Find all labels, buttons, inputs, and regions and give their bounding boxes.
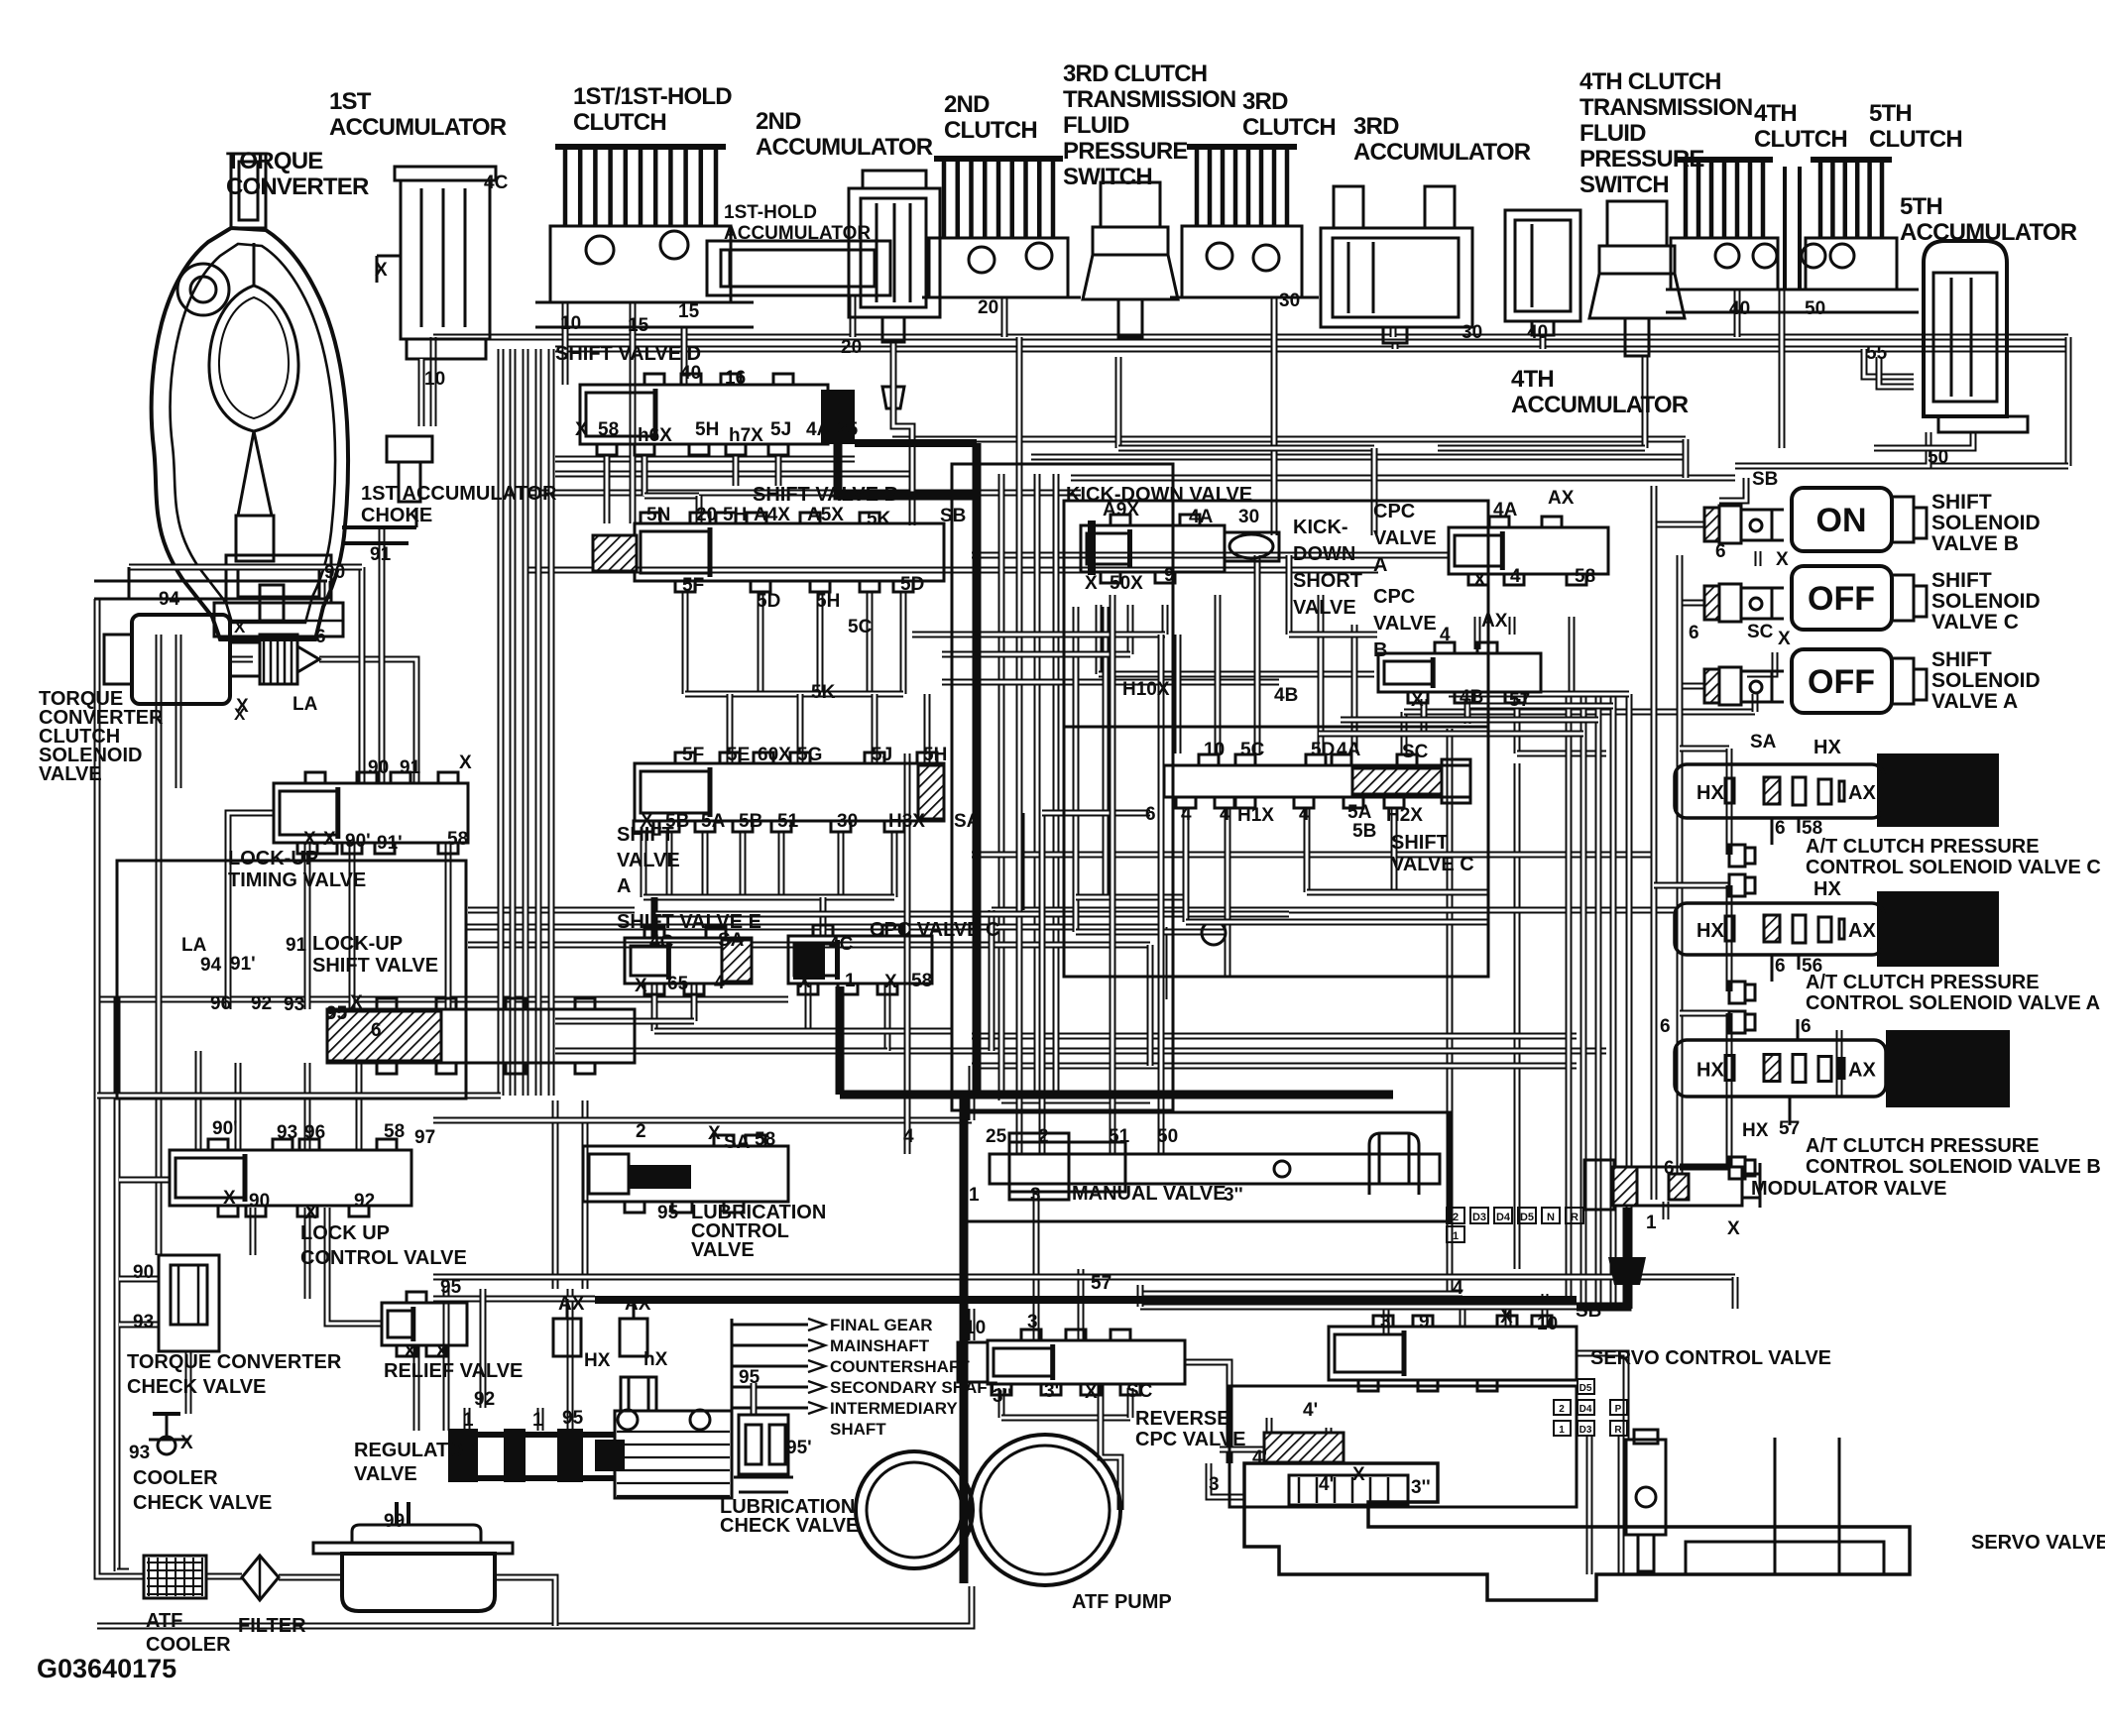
svg-text:58: 58 xyxy=(911,971,932,991)
svg-text:SB: SB xyxy=(1752,469,1778,490)
svg-text:91: 91 xyxy=(286,935,307,956)
svg-text:90: 90 xyxy=(324,562,345,583)
svg-text:HX: HX xyxy=(1696,920,1724,942)
svg-text:SHIFT: SHIFT xyxy=(1931,569,1992,592)
svg-text:CLUTCH: CLUTCH xyxy=(1242,114,1336,141)
svg-text:CPC VALVE C: CPC VALVE C xyxy=(870,919,1000,941)
svg-text:15: 15 xyxy=(678,301,700,322)
svg-text:20: 20 xyxy=(841,337,862,358)
svg-text:AX: AX xyxy=(1848,782,1876,804)
svg-text:10: 10 xyxy=(560,313,581,334)
svg-text:CLUTCH: CLUTCH xyxy=(573,109,666,136)
svg-text:5F: 5F xyxy=(682,745,704,765)
svg-text:60X: 60X xyxy=(758,745,791,765)
svg-text:2ND: 2ND xyxy=(756,108,801,135)
svg-text:2: 2 xyxy=(636,1121,646,1142)
svg-text:4: 4 xyxy=(1220,804,1230,825)
svg-text:CONVERTER: CONVERTER xyxy=(226,174,369,200)
svg-text:RELIEF VALVE: RELIEF VALVE xyxy=(384,1360,523,1382)
svg-text:PRESSURE: PRESSURE xyxy=(1579,146,1704,173)
svg-text:20: 20 xyxy=(978,297,998,318)
svg-text:COOLER: COOLER xyxy=(146,1634,231,1656)
svg-text:6: 6 xyxy=(1689,623,1699,643)
svg-text:95: 95 xyxy=(562,1408,584,1429)
svg-text:h6X: h6X xyxy=(638,425,672,446)
svg-text:MAINSHAFT: MAINSHAFT xyxy=(830,1336,930,1355)
svg-text:SA: SA xyxy=(718,930,745,951)
svg-text:P: P xyxy=(1615,1404,1622,1415)
svg-text:2: 2 xyxy=(1559,1404,1565,1415)
svg-text:SB: SB xyxy=(1576,1301,1601,1322)
svg-text:95: 95 xyxy=(440,1277,462,1298)
svg-text:ACCUMULATOR: ACCUMULATOR xyxy=(724,223,871,244)
svg-text:5H: 5H xyxy=(923,745,947,765)
svg-text:SHIFT VALVE: SHIFT VALVE xyxy=(312,955,438,977)
svg-text:50: 50 xyxy=(1928,447,1948,468)
svg-text:TORQUE: TORQUE xyxy=(226,148,323,174)
svg-text:A/T CLUTCH PRESSURE: A/T CLUTCH PRESSURE xyxy=(1806,1135,2040,1157)
svg-text:SA: SA xyxy=(954,811,981,832)
svg-text:4: 4 xyxy=(1440,625,1451,645)
svg-text:91: 91 xyxy=(370,544,392,565)
svg-text:3: 3 xyxy=(1030,1185,1041,1206)
svg-text:KICK-: KICK- xyxy=(1293,517,1348,538)
svg-text:R: R xyxy=(1571,1212,1579,1223)
svg-text:LOCK-UP: LOCK-UP xyxy=(228,848,318,869)
svg-text:1: 1 xyxy=(532,1410,543,1431)
svg-text:A9X: A9X xyxy=(1103,500,1139,521)
svg-text:30: 30 xyxy=(837,811,858,832)
svg-text:CONTROL SOLENOID VALVE A: CONTROL SOLENOID VALVE A xyxy=(1806,992,2100,1014)
svg-text:REGULATOR: REGULATOR xyxy=(354,1440,478,1461)
svg-text:AX: AX xyxy=(1848,920,1876,942)
svg-text:AX: AX xyxy=(625,1294,651,1315)
svg-text:93: 93 xyxy=(133,1312,154,1332)
svg-text:5D: 5D xyxy=(900,574,924,595)
svg-text:SHIFT VALVE D: SHIFT VALVE D xyxy=(555,343,701,365)
svg-text:10: 10 xyxy=(1204,740,1225,760)
svg-text:HX: HX xyxy=(584,1350,611,1371)
svg-text:D5: D5 xyxy=(1520,1212,1534,1223)
svg-text:56: 56 xyxy=(1802,956,1822,977)
svg-text:4': 4' xyxy=(1319,1474,1334,1495)
svg-text:FINAL GEAR: FINAL GEAR xyxy=(830,1316,933,1334)
svg-text:5J: 5J xyxy=(872,745,892,765)
svg-text:50X: 50X xyxy=(1110,573,1143,594)
svg-text:DOWN: DOWN xyxy=(1293,543,1355,565)
svg-text:1: 1 xyxy=(1453,1230,1459,1242)
svg-text:VALVE: VALVE xyxy=(1373,613,1437,635)
svg-text:VALVE: VALVE xyxy=(1293,597,1356,619)
svg-text:30: 30 xyxy=(1238,507,1259,527)
svg-text:3RD: 3RD xyxy=(1353,113,1399,140)
svg-text:CPC: CPC xyxy=(1373,501,1415,522)
svg-text:SC: SC xyxy=(1747,622,1774,642)
svg-text:3: 3 xyxy=(1027,1312,1038,1332)
svg-text:58: 58 xyxy=(755,1129,775,1150)
svg-text:CONTROL VALVE: CONTROL VALVE xyxy=(300,1247,467,1269)
svg-text:X: X xyxy=(1352,1464,1365,1485)
svg-text:D4: D4 xyxy=(1496,1212,1511,1223)
svg-text:X: X xyxy=(234,618,246,637)
svg-text:1ST: 1ST xyxy=(329,88,372,115)
svg-text:X: X xyxy=(1500,1307,1513,1328)
svg-text:X: X xyxy=(635,976,647,996)
svg-text:LOCK UP: LOCK UP xyxy=(300,1222,390,1244)
svg-text:TORQUE CONVERTER: TORQUE CONVERTER xyxy=(127,1351,342,1373)
svg-text:6: 6 xyxy=(1664,1158,1675,1179)
svg-text:58: 58 xyxy=(598,419,619,440)
svg-text:4TH: 4TH xyxy=(1511,366,1554,393)
svg-text:50: 50 xyxy=(1157,1126,1178,1147)
svg-text:58: 58 xyxy=(1575,566,1595,587)
svg-text:VALVE: VALVE xyxy=(617,850,680,871)
svg-text:20: 20 xyxy=(696,505,717,525)
svg-text:X: X xyxy=(1776,549,1789,570)
svg-text:VALVE B: VALVE B xyxy=(1931,532,2019,555)
svg-text:SHIFT: SHIFT xyxy=(1391,832,1449,854)
svg-text:X: X xyxy=(304,1203,317,1223)
svg-text:LOCK-UP: LOCK-UP xyxy=(312,933,403,955)
svg-text:H1X: H1X xyxy=(1237,805,1274,826)
svg-text:5TH: 5TH xyxy=(1869,100,1912,127)
svg-text:5C: 5C xyxy=(1240,740,1265,760)
svg-text:X: X xyxy=(435,1341,448,1362)
svg-text:5B: 5B xyxy=(665,811,689,832)
svg-text:94: 94 xyxy=(200,955,222,976)
svg-text:CHOKE: CHOKE xyxy=(361,505,432,526)
svg-text:HX: HX xyxy=(1696,1060,1724,1082)
svg-text:3': 3' xyxy=(1044,1381,1059,1402)
svg-text:COOLER: COOLER xyxy=(133,1467,218,1489)
svg-text:50: 50 xyxy=(1805,298,1825,319)
svg-text:99: 99 xyxy=(384,1511,405,1532)
svg-text:5B: 5B xyxy=(739,811,762,832)
svg-text:SECONDARY SHAFT: SECONDARY SHAFT xyxy=(830,1378,998,1397)
svg-text:CHECK VALVE: CHECK VALVE xyxy=(720,1515,859,1537)
svg-text:65: 65 xyxy=(667,974,689,994)
svg-text:OFF: OFF xyxy=(1808,580,1875,618)
svg-text:CONTROL SOLENOID VALVE B: CONTROL SOLENOID VALVE B xyxy=(1806,1156,2101,1178)
svg-text:4TH: 4TH xyxy=(1754,100,1797,127)
svg-text:92: 92 xyxy=(251,993,272,1014)
svg-text:D5: D5 xyxy=(1579,1383,1592,1394)
svg-text:95: 95 xyxy=(657,1203,679,1223)
svg-text:VALVE: VALVE xyxy=(39,763,102,785)
svg-text:2: 2 xyxy=(1038,1126,1049,1147)
svg-text:6: 6 xyxy=(1801,1016,1812,1037)
svg-text:5D: 5D xyxy=(1311,740,1335,760)
svg-text:5D: 5D xyxy=(757,591,780,612)
svg-text:X: X xyxy=(223,1188,236,1209)
svg-text:B: B xyxy=(1373,639,1387,661)
svg-text:SC: SC xyxy=(1402,742,1429,762)
svg-text:AX: AX xyxy=(1848,1060,1876,1082)
svg-text:X: X xyxy=(303,829,316,850)
svg-text:SHORT: SHORT xyxy=(1293,570,1362,592)
svg-text:X: X xyxy=(1473,570,1486,591)
svg-text:A/T CLUTCH PRESSURE: A/T CLUTCH PRESSURE xyxy=(1806,836,2040,858)
svg-text:90: 90 xyxy=(368,757,389,778)
svg-text:6: 6 xyxy=(1775,956,1786,977)
svg-text:2ND: 2ND xyxy=(944,91,990,118)
svg-text:MODULATOR VALVE: MODULATOR VALVE xyxy=(1751,1178,1946,1200)
svg-text:hX: hX xyxy=(643,1349,668,1370)
svg-text:4: 4 xyxy=(1181,804,1192,825)
svg-text:OFF: OFF xyxy=(1808,663,1875,701)
svg-text:90: 90 xyxy=(249,1191,270,1212)
svg-text:4TH CLUTCH: 4TH CLUTCH xyxy=(1579,68,1721,95)
svg-text:LA: LA xyxy=(292,694,318,715)
svg-text:91': 91' xyxy=(377,833,403,854)
svg-text:95: 95 xyxy=(739,1367,760,1388)
svg-text:93: 93 xyxy=(277,1122,297,1143)
svg-text:SC: SC xyxy=(1126,1381,1153,1402)
svg-text:ACCUMULATOR: ACCUMULATOR xyxy=(1900,219,2077,246)
svg-text:CPC: CPC xyxy=(1373,586,1415,608)
svg-text:5H: 5H xyxy=(695,419,719,440)
svg-text:4C: 4C xyxy=(484,173,509,193)
svg-text:ACCUMULATOR: ACCUMULATOR xyxy=(329,114,507,141)
svg-text:COUNTERSHAFT: COUNTERSHAFT xyxy=(830,1357,970,1376)
svg-text:H3X: H3X xyxy=(888,811,925,832)
svg-text:6: 6 xyxy=(1145,804,1156,825)
svg-text:ATF PUMP: ATF PUMP xyxy=(1072,1591,1172,1613)
svg-text:9: 9 xyxy=(1164,565,1175,586)
svg-text:CLUTCH: CLUTCH xyxy=(1754,126,1847,153)
svg-text:SA: SA xyxy=(724,1132,751,1153)
svg-text:1: 1 xyxy=(969,1185,980,1206)
svg-text:TRANSMISSION: TRANSMISSION xyxy=(1063,86,1235,113)
svg-text:4: 4 xyxy=(1510,566,1521,587)
svg-text:25: 25 xyxy=(837,419,859,440)
svg-text:SB: SB xyxy=(940,506,966,526)
svg-text:G03640175: G03640175 xyxy=(37,1654,176,1683)
svg-text:92: 92 xyxy=(354,1191,375,1212)
svg-text:10: 10 xyxy=(424,369,445,390)
svg-text:CHECK VALVE: CHECK VALVE xyxy=(133,1492,272,1514)
svg-text:SHIFT: SHIFT xyxy=(1931,648,1992,671)
svg-text:VALVE A: VALVE A xyxy=(1931,690,2018,713)
svg-text:X: X xyxy=(180,1433,193,1453)
svg-text:97: 97 xyxy=(414,1127,435,1148)
svg-text:96: 96 xyxy=(210,993,231,1014)
svg-text:9: 9 xyxy=(1419,1312,1430,1332)
svg-text:R: R xyxy=(1614,1425,1622,1436)
svg-text:SA: SA xyxy=(1750,732,1777,752)
svg-text:CPC VALVE: CPC VALVE xyxy=(1135,1429,1246,1450)
svg-text:1ST ACCUMULATOR: 1ST ACCUMULATOR xyxy=(361,483,557,505)
svg-text:HX: HX xyxy=(1696,782,1724,804)
svg-text:SHIFT: SHIFT xyxy=(1931,491,1992,514)
svg-text:90: 90 xyxy=(133,1262,154,1283)
svg-text:95': 95' xyxy=(786,1438,812,1458)
svg-text:3'': 3'' xyxy=(1224,1185,1243,1206)
svg-text:4': 4' xyxy=(1303,1400,1318,1421)
svg-text:A4X: A4X xyxy=(754,505,790,525)
svg-text:4: 4 xyxy=(1299,804,1310,825)
svg-text:MANUAL VALVE: MANUAL VALVE xyxy=(1072,1183,1227,1205)
svg-text:1: 1 xyxy=(1559,1425,1565,1436)
svg-text:SHAFT: SHAFT xyxy=(830,1420,886,1439)
svg-text:X: X xyxy=(375,260,388,281)
svg-text:H10X: H10X xyxy=(1122,679,1170,700)
svg-text:5N: 5N xyxy=(646,505,670,525)
svg-text:5C: 5C xyxy=(848,617,873,637)
svg-text:51: 51 xyxy=(1109,1126,1130,1147)
svg-text:HX: HX xyxy=(1742,1120,1769,1141)
svg-text:VALVE: VALVE xyxy=(354,1463,417,1485)
svg-text:30: 30 xyxy=(1279,290,1300,311)
svg-text:4A: 4A xyxy=(806,419,831,440)
svg-text:CLUTCH: CLUTCH xyxy=(1869,126,1962,153)
svg-text:30: 30 xyxy=(1462,322,1482,343)
svg-text:57: 57 xyxy=(1779,1118,1800,1139)
svg-text:VALVE C: VALVE C xyxy=(1391,854,1474,875)
svg-text:A5X: A5X xyxy=(807,505,844,525)
svg-text:X: X xyxy=(459,752,472,773)
svg-text:SHIFT VALVE B: SHIFT VALVE B xyxy=(753,484,898,506)
svg-text:FLUID: FLUID xyxy=(1579,120,1646,147)
svg-text:PRESSURE: PRESSURE xyxy=(1063,138,1188,165)
svg-text:4: 4 xyxy=(714,973,725,993)
svg-text:1: 1 xyxy=(845,971,856,991)
svg-text:X: X xyxy=(1778,629,1791,649)
svg-text:3: 3 xyxy=(1209,1474,1220,1495)
svg-text:AX: AX xyxy=(1481,611,1508,632)
svg-text:SOLENOID: SOLENOID xyxy=(1931,669,2041,692)
svg-text:91': 91' xyxy=(230,954,256,975)
svg-text:4: 4 xyxy=(1453,1278,1463,1299)
svg-text:4C: 4C xyxy=(829,934,854,955)
svg-text:HX: HX xyxy=(1813,878,1841,900)
svg-text:5F: 5F xyxy=(682,575,704,596)
svg-text:93: 93 xyxy=(129,1443,150,1463)
svg-text:ATF: ATF xyxy=(146,1610,182,1632)
svg-text:15: 15 xyxy=(628,315,649,336)
svg-text:X: X xyxy=(350,992,363,1013)
svg-text:5H: 5H xyxy=(723,505,747,525)
svg-text:A: A xyxy=(1373,554,1387,576)
svg-text:H2X: H2X xyxy=(1386,805,1423,826)
svg-text:57: 57 xyxy=(1091,1273,1111,1294)
svg-text:58: 58 xyxy=(447,829,468,850)
svg-text:51: 51 xyxy=(777,811,799,832)
svg-text:4': 4' xyxy=(1252,1447,1267,1468)
svg-text:D3: D3 xyxy=(1472,1212,1486,1223)
svg-text:1: 1 xyxy=(463,1410,474,1431)
svg-text:1ST-HOLD: 1ST-HOLD xyxy=(724,202,817,223)
svg-text:INTERMEDIARY: INTERMEDIARY xyxy=(830,1399,958,1418)
svg-text:5A: 5A xyxy=(1347,802,1372,823)
svg-text:X: X xyxy=(798,972,811,992)
svg-text:90': 90' xyxy=(345,831,371,852)
svg-text:1ST/1ST-HOLD: 1ST/1ST-HOLD xyxy=(573,83,732,110)
svg-text:HX: HX xyxy=(1813,737,1841,758)
svg-text:TRANSMISSION: TRANSMISSION xyxy=(1579,94,1752,121)
svg-text:10: 10 xyxy=(1537,1314,1558,1334)
svg-text:5TH: 5TH xyxy=(1900,193,1942,220)
svg-text:5G: 5G xyxy=(797,745,822,765)
svg-text:91: 91 xyxy=(400,757,421,778)
svg-text:5E: 5E xyxy=(727,745,750,765)
svg-text:ACCUMULATOR: ACCUMULATOR xyxy=(756,134,933,161)
svg-text:4: 4 xyxy=(903,1126,914,1147)
svg-text:SOLENOID: SOLENOID xyxy=(1931,512,2041,534)
svg-text:SERVO VALVE: SERVO VALVE xyxy=(1971,1532,2105,1554)
svg-text:X: X xyxy=(323,829,336,850)
svg-text:SWITCH: SWITCH xyxy=(1579,172,1669,198)
svg-text:4C: 4C xyxy=(649,932,674,953)
svg-text:X: X xyxy=(1727,1218,1740,1239)
svg-text:40: 40 xyxy=(1729,298,1750,319)
svg-text:FLUID: FLUID xyxy=(1063,112,1129,139)
svg-text:VALVE C: VALVE C xyxy=(1931,611,2019,634)
svg-text:3RD CLUTCH: 3RD CLUTCH xyxy=(1063,60,1207,87)
svg-text:X: X xyxy=(1085,1382,1098,1403)
svg-text:94: 94 xyxy=(159,589,180,610)
svg-text:CHECK VALVE: CHECK VALVE xyxy=(127,1376,266,1398)
svg-text:5A: 5A xyxy=(701,811,726,832)
svg-text:A/T CLUTCH PRESSURE: A/T CLUTCH PRESSURE xyxy=(1806,972,2040,993)
svg-text:90': 90' xyxy=(212,1118,238,1139)
svg-text:CLUTCH: CLUTCH xyxy=(944,117,1037,144)
svg-text:5H: 5H xyxy=(816,591,840,612)
svg-text:ON: ON xyxy=(1816,502,1867,539)
svg-text:96: 96 xyxy=(304,1122,325,1143)
svg-text:10: 10 xyxy=(965,1318,986,1338)
svg-text:A: A xyxy=(617,875,631,897)
svg-text:3RD: 3RD xyxy=(1242,88,1288,115)
svg-text:25: 25 xyxy=(986,1126,1007,1147)
svg-text:SOLENOID: SOLENOID xyxy=(1931,590,2041,613)
svg-text:3'': 3'' xyxy=(993,1386,1012,1407)
svg-text:40: 40 xyxy=(1527,322,1548,343)
svg-text:FILTER: FILTER xyxy=(238,1615,306,1637)
svg-text:X: X xyxy=(404,1341,416,1362)
svg-text:58: 58 xyxy=(384,1121,405,1142)
svg-text:6: 6 xyxy=(1660,1016,1671,1037)
svg-text:X: X xyxy=(641,811,653,832)
svg-text:6: 6 xyxy=(1715,541,1726,562)
svg-text:AX: AX xyxy=(1548,488,1575,509)
svg-text:LA: LA xyxy=(181,935,207,956)
svg-text:55: 55 xyxy=(1866,343,1888,364)
svg-text:6: 6 xyxy=(1775,818,1786,839)
svg-text:16: 16 xyxy=(725,368,746,389)
svg-text:5J: 5J xyxy=(770,419,791,440)
svg-text:4A: 4A xyxy=(1337,740,1361,760)
svg-text:D4: D4 xyxy=(1579,1404,1592,1415)
svg-text:SWITCH: SWITCH xyxy=(1063,164,1152,190)
svg-text:95: 95 xyxy=(326,1003,348,1024)
svg-text:AX: AX xyxy=(558,1294,585,1315)
svg-text:3'': 3'' xyxy=(1411,1477,1431,1498)
svg-text:ACCUMULATOR: ACCUMULATOR xyxy=(1353,139,1531,166)
svg-text:X: X xyxy=(575,419,588,440)
svg-text:6: 6 xyxy=(371,1020,382,1041)
svg-text:X: X xyxy=(884,972,897,992)
svg-text:58: 58 xyxy=(1802,818,1822,839)
svg-text:1: 1 xyxy=(1646,1213,1657,1233)
svg-text:3: 3 xyxy=(1380,1312,1391,1332)
svg-text:TIMING VALVE: TIMING VALVE xyxy=(228,869,366,891)
svg-text:5K: 5K xyxy=(867,509,891,529)
svg-text:KICK-DOWN VALVE: KICK-DOWN VALVE xyxy=(1066,484,1252,506)
svg-text:REVERSE: REVERSE xyxy=(1135,1408,1230,1430)
svg-text:5B: 5B xyxy=(1352,821,1376,842)
svg-text:ACCUMULATOR: ACCUMULATOR xyxy=(1511,392,1689,418)
